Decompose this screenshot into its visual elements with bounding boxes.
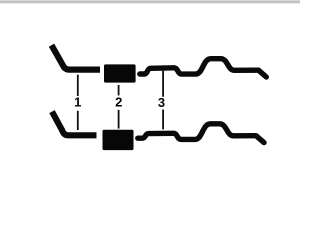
leader line, callout 2 upper [118,85,120,95]
leader line, callout 1 upper [77,75,79,96]
svg-text:2: 2 [115,94,122,109]
wire: tailpipe (bottom bank) [138,124,264,143]
muffler 2 (top) [104,64,136,82]
wire: tailpipe (top bank) [140,59,266,77]
svg-text:1: 1 [74,95,81,110]
svg-text:3: 3 [158,95,165,110]
wire: front exhaust pipe (top bank) [52,45,101,69]
leader line, callout 1 lower [77,111,79,130]
page border top rule [0,0,300,1]
leader line, callout 2 lower [118,110,120,129]
muffler 2 (bottom) [103,130,134,150]
leader line, callout 3 lower [162,110,164,130]
wire: front exhaust pipe (bottom bank) [52,112,97,136]
leader line, callout 3 upper [162,71,164,97]
